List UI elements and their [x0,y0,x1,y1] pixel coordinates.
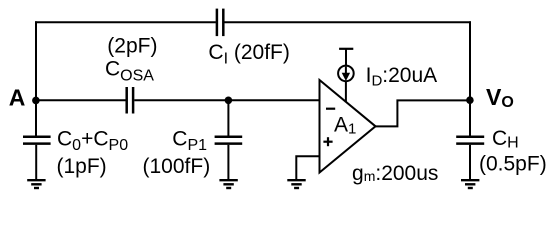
capacitor CI (feedback, 20fF) [217,9,223,36]
capacitor C0+CP0 (shunt at node A, 1pF) [23,137,51,144]
wire node A to COSA [35,99,126,101]
op-amp plus input sign [323,137,332,146]
ground (op-amp plus input) [287,180,305,188]
current source ID arrow (down) [345,67,347,74]
current source ID stem above circle [345,49,347,65]
wire top feedback left segment [35,21,216,23]
svg-text:A: A [9,85,26,111]
svg-text:(1pF): (1pF) [57,155,107,178]
wire C0+CP0 bottom to ground [35,145,37,180]
wire junction to CP1 [227,100,229,135]
op-amp A1 triangle [320,80,376,173]
wire top feedback right segment [224,21,471,23]
svg-text:CI (20fF): CI (20fF) [208,41,289,67]
wire COSA to op-amp minus input [134,99,319,101]
ground (below CH) [461,180,479,188]
capacitor CP1 (shunt, 100fF) [215,137,243,144]
current source ID circle [338,66,354,82]
capacitor COSA (series, 2pF) [127,87,133,114]
wire right vertical (top wire down through VO to CH) [469,21,471,135]
wire op-amp output to VO node [376,100,471,126]
svg-text:(100fF): (100fF) [143,155,211,178]
ground (below C0+CP0) [27,180,45,188]
svg-text:(0.5pF): (0.5pF) [479,152,547,175]
wire left vertical (top wire down to C0+CP0) [35,21,37,135]
op-amp minus input sign [326,108,335,110]
capacitor CH (shunt at VO, 0.5pF) [456,137,484,144]
wire CP1 bottom to ground [227,145,229,180]
wire current source to op-amp top edge [345,81,347,103]
node VO junction dot [466,96,474,104]
wire CH bottom to ground [469,145,471,180]
current source ID top bar [339,48,353,50]
wire plus input to ground [296,156,319,179]
junction dot at CP1 [225,97,233,105]
ground (below CP1) [219,180,237,188]
node A junction dot [32,97,40,105]
svg-text:(2pF): (2pF) [107,35,157,58]
